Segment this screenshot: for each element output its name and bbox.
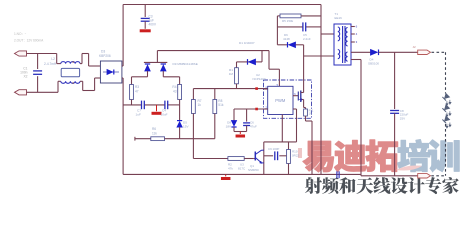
svg-text:2.OUT：12V 600mA: 2.OUT：12V 600mA xyxy=(14,39,44,43)
svg-text:51k: 51k xyxy=(218,103,224,107)
svg-text:D9 MMBD4148SE: D9 MMBD4148SE xyxy=(173,62,198,66)
svg-text:47uF: 47uF xyxy=(250,125,257,129)
svg-text:43: 43 xyxy=(173,89,177,93)
svg-text:2-4.7mH: 2-4.7mH xyxy=(44,62,57,66)
svg-text:SB5100: SB5100 xyxy=(368,61,379,65)
svg-text:1R: 1R xyxy=(309,112,312,116)
svg-text:SS8050: SS8050 xyxy=(248,168,259,172)
svg-text:KBP206: KBP206 xyxy=(99,54,111,58)
svg-text:817C: 817C xyxy=(238,167,246,171)
svg-text:EE16: EE16 xyxy=(335,16,343,20)
svg-text:L2: L2 xyxy=(51,57,55,61)
svg-text:47: 47 xyxy=(135,89,139,93)
svg-text:0R22: 0R22 xyxy=(292,154,300,158)
svg-text:25V: 25V xyxy=(400,116,405,120)
svg-text:D1 1N4007: D1 1N4007 xyxy=(239,41,255,45)
svg-text:10uF: 10uF xyxy=(161,113,168,117)
svg-text:11k: 11k xyxy=(152,131,157,135)
svg-text:15V: 15V xyxy=(183,125,189,129)
svg-text:1k: 1k xyxy=(198,103,202,107)
svg-text:400V: 400V xyxy=(149,23,157,27)
svg-text:4148: 4148 xyxy=(283,37,290,41)
svg-text:1M: 1M xyxy=(229,72,234,76)
svg-text:47k: 47k xyxy=(228,167,233,171)
svg-text:X2: X2 xyxy=(23,75,27,79)
svg-text:J2: J2 xyxy=(413,45,417,49)
svg-text:NCP1200: NCP1200 xyxy=(253,77,266,81)
svg-text:2.2nF: 2.2nF xyxy=(303,37,311,41)
svg-text:PWM: PWM xyxy=(275,98,286,103)
svg-text:1.NO：ｰ: 1.NO：ｰ xyxy=(14,32,27,36)
svg-text:R5 150k: R5 150k xyxy=(282,19,294,23)
svg-text:18V: 18V xyxy=(226,125,231,129)
svg-text:1uF: 1uF xyxy=(136,113,141,117)
svg-text:C9 100P: C9 100P xyxy=(268,147,279,151)
